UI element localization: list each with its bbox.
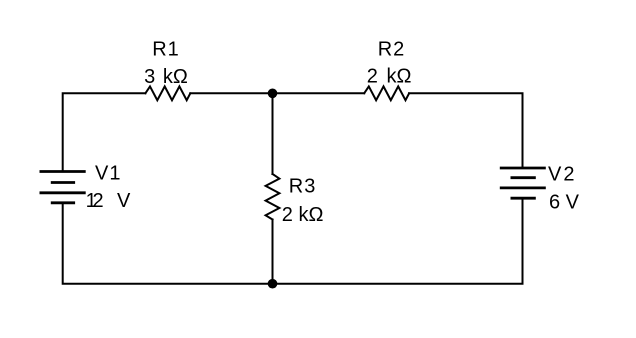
wire top-right segment bbox=[409, 93, 522, 168]
svg-text:2 kΩ: 2 kΩ bbox=[282, 204, 324, 226]
svg-text:R3: R3 bbox=[289, 176, 317, 198]
wire R1 to node A bbox=[190, 92, 272, 94]
svg-text:2 kΩ: 2 kΩ bbox=[367, 66, 412, 88]
wire bottom node B to right bbox=[273, 198, 523, 284]
wire left-bottom segment bbox=[63, 203, 273, 284]
node B junction dot bbox=[268, 279, 278, 289]
svg-text:V1: V1 bbox=[95, 162, 121, 184]
resistor R1 bbox=[145, 86, 190, 100]
wire top-left segment bbox=[63, 93, 146, 171]
wire node A to R2 bbox=[273, 92, 365, 94]
battery V1 bbox=[41, 172, 84, 203]
svg-text:V2: V2 bbox=[548, 163, 576, 185]
svg-text:R2: R2 bbox=[378, 39, 406, 61]
battery V2 bbox=[501, 168, 544, 198]
svg-text:3 kΩ: 3 kΩ bbox=[144, 66, 188, 88]
resistor R3 bbox=[266, 174, 280, 220]
svg-text:6 V: 6 V bbox=[549, 192, 580, 214]
wire R3 to node B bbox=[272, 220, 274, 284]
wire node A down to R3 bbox=[272, 93, 274, 174]
node A junction dot bbox=[268, 89, 278, 99]
resistor R2 bbox=[364, 86, 409, 100]
svg-text:12V: 12V bbox=[86, 190, 131, 212]
svg-text:R1: R1 bbox=[152, 38, 180, 60]
